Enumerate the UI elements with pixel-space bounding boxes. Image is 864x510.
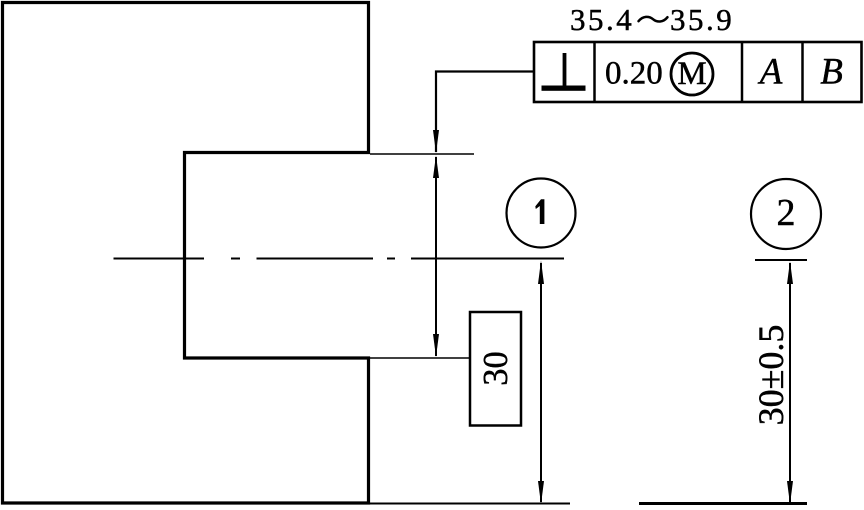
svg-text:2: 2 [777, 192, 796, 234]
svg-text:A: A [757, 52, 783, 93]
svg-text:B: B [820, 52, 843, 93]
svg-text:M: M [677, 56, 706, 92]
svg-text:35.9: 35.9 [670, 2, 734, 37]
svg-text:30: 30 [477, 351, 515, 386]
svg-text:30±0.5: 30±0.5 [751, 325, 791, 426]
svg-text:35.4: 35.4 [570, 2, 634, 37]
svg-text:0.20: 0.20 [605, 56, 663, 92]
